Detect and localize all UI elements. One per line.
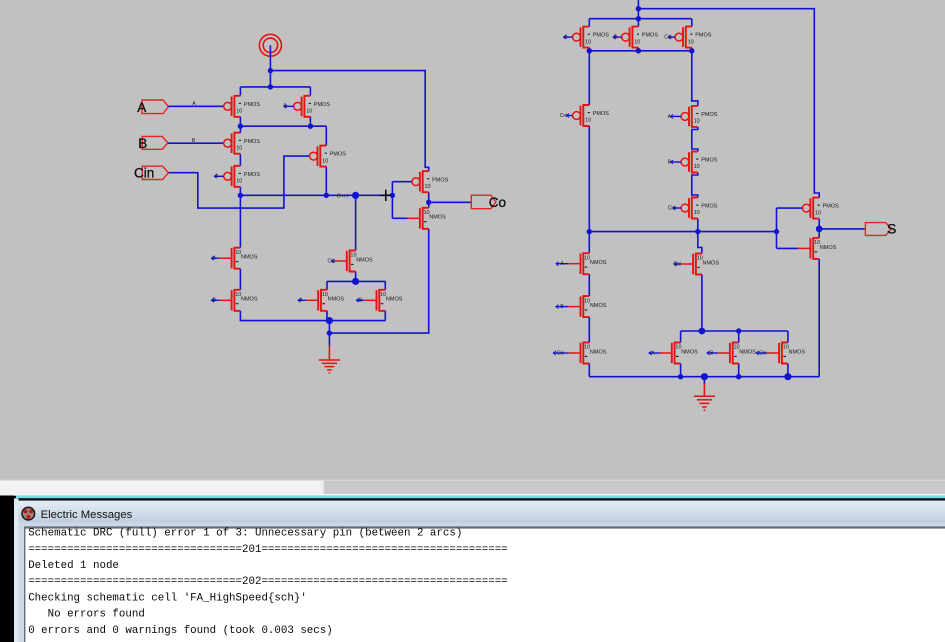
wire P4 gate stub (gate stub): [214, 174, 223, 180]
wire bottom rail right: [589, 376, 819, 378]
wire inverter NMOS gate wire: [392, 217, 407, 219]
wire vdd rail left: [240, 86, 310, 88]
wire output to Co pin: [429, 201, 472, 203]
wire inverter NMOS source down: [329, 229, 428, 333]
svg-text:Deleted 1 node: Deleted 1 node: [28, 560, 119, 572]
transistor P10 gate Cni (PMOS): [573, 105, 610, 126]
wire vdd drop to rail: [269, 71, 271, 87]
transistor P4 gate A (PMOS): [224, 166, 261, 187]
svg-text:PMOS: PMOS: [701, 112, 718, 118]
pin S: [865, 223, 891, 236]
wire node n1 horizontal: [240, 125, 326, 127]
pin B: [142, 136, 168, 149]
svg-text:PMOS: PMOS: [642, 33, 659, 39]
wire parallel trio top rail: [681, 330, 788, 332]
wire N9 gate stub (gate stub): [556, 304, 568, 310]
svg-text:Schematic DRC (full) error 1 o: Schematic DRC (full) error 1 of 3: Unnec…: [28, 528, 462, 540]
unnecessary-pin cross marker: [380, 190, 391, 201]
transistor P1 gate A (PMOS): [224, 96, 261, 117]
node Cni at stack: [238, 193, 243, 198]
wire power feed: [269, 45, 271, 70]
schematic canvas background: [0, 0, 945, 480]
node vdd entry branch: [636, 6, 641, 11]
wire rail to N6 drain: [384, 281, 386, 289]
svg-text:10: 10: [306, 109, 312, 115]
wire N14 gate stub (gate stub): [756, 350, 767, 356]
svg-text:A: A: [137, 100, 146, 115]
svg-text:Cni: Cni: [560, 113, 568, 119]
node S output: [816, 226, 823, 233]
wire rail to N12: [680, 331, 682, 343]
node gnd link node: [327, 330, 332, 335]
svg-text:PMOS: PMOS: [432, 177, 449, 183]
wire N9-N10 link: [588, 317, 590, 342]
transistor N12 gate A (NMOS): [660, 343, 698, 364]
wire P5 drain to Cni rail: [325, 167, 327, 196]
wire rail to P1 source: [239, 87, 241, 96]
svg-text:NMOS: NMOS: [241, 255, 258, 261]
wire P8 drain: [637, 48, 639, 51]
svg-text:PMOS: PMOS: [593, 111, 610, 117]
node N4-source node (big): [352, 278, 359, 285]
node trio rail mid: [636, 48, 641, 53]
transistor N4 gate Cin (NMOS): [335, 251, 373, 272]
transistor P12 gate B (PMOS): [681, 152, 718, 173]
node vdd branch junction: [268, 68, 273, 73]
transistor P14 S-inverter (PMOS): [803, 198, 840, 219]
wire Cin route: [168, 156, 309, 208]
wire pin B to P3 gate: [168, 142, 224, 144]
node Cni at inverter: [390, 193, 395, 198]
wire N4 source down: [355, 272, 357, 282]
wire S-inv input vertical: [776, 208, 778, 248]
transistor P5 gate Cin (PMOS): [310, 146, 347, 167]
wire Cni rail: [240, 194, 392, 196]
node n1 left: [238, 124, 243, 129]
transistor N11 gate Cni (NMOS): [681, 254, 719, 275]
wire right branch down: [692, 51, 698, 106]
svg-text:PMOS: PMOS: [695, 33, 712, 39]
svg-text:10: 10: [585, 118, 591, 124]
wire N3 source to gnd rail: [240, 311, 385, 321]
power symbol VDD: [259, 34, 281, 56]
wire P8 gate stub (gate stub): [613, 35, 622, 41]
window icon: [22, 507, 35, 520]
svg-text:PMOS: PMOS: [244, 139, 261, 145]
node trio top mid: [736, 328, 741, 333]
wire P3 drain to P4 source: [239, 154, 241, 166]
node N11 source node: [699, 328, 706, 335]
wire inverter output node: [428, 192, 430, 208]
wire output to S pin: [819, 228, 865, 230]
wire rail to N13: [738, 331, 740, 343]
Electric Messages window frame: [14, 494, 945, 496]
pin A: [142, 100, 169, 114]
window chrome: strip below canvas: [0, 480, 945, 481]
transistor N14 gate Cin (NMOS): [767, 343, 805, 364]
wire left branch down: [588, 51, 590, 105]
svg-text:10: 10: [815, 210, 821, 216]
svg-text:PMOS: PMOS: [701, 158, 718, 164]
svg-text:Cin: Cin: [759, 350, 767, 356]
svg-text:NMOS: NMOS: [739, 349, 756, 355]
svg-text:10: 10: [694, 164, 700, 170]
node Sni left: [587, 229, 592, 234]
wire S-inv NMOS source down: [818, 259, 820, 377]
svg-text:PMOS: PMOS: [701, 204, 718, 210]
wire N12 source: [680, 364, 682, 377]
wire P13 gate stub (gate stub): [668, 205, 681, 211]
wire N6 source down: [384, 311, 386, 321]
pin Cin: [142, 166, 168, 179]
transistor N13 gate B (NMOS): [718, 343, 756, 364]
wire N11 drain up: [698, 232, 702, 254]
node Sni at inverter: [774, 229, 779, 234]
wire vdd branch to inverter: [270, 71, 428, 172]
svg-text:NMOS: NMOS: [241, 297, 258, 303]
wire rail to P2 source: [309, 87, 311, 96]
wire P9 drain: [691, 48, 693, 51]
wire rail to P9: [691, 19, 693, 27]
node trio rail left: [587, 48, 592, 53]
wire N5 source down: [326, 311, 328, 321]
ground symbol (left circuit): [319, 345, 340, 374]
transistor N10 gate Cin (NMOS): [568, 343, 606, 364]
transistor P11 gate A (PMOS): [681, 106, 718, 127]
wire P10 drain to Sni: [588, 126, 590, 232]
transistor P2 gate B (PMOS): [294, 96, 331, 117]
node Cni mid (big): [352, 192, 359, 199]
node n1 right: [308, 124, 313, 129]
wire P13 drain to Sni: [697, 219, 699, 232]
svg-text:10: 10: [322, 158, 328, 164]
transistor N7 S-inverter (NMOS): [798, 238, 836, 259]
node gnd rail node (big): [326, 317, 333, 324]
node Cni at P5: [324, 193, 329, 198]
svg-text:10: 10: [236, 109, 242, 115]
wire N8 stack top: [588, 232, 590, 254]
wire P2 drain down: [309, 117, 311, 127]
node vdd rail junction: [268, 84, 273, 89]
svg-text:Cin: Cin: [668, 205, 676, 211]
transistor P3 gate B (PMOS): [224, 133, 261, 154]
svg-text:10: 10: [236, 179, 242, 185]
svg-text:Cin: Cin: [664, 35, 672, 41]
svg-text:B: B: [138, 136, 147, 151]
wire rail to N5 drain: [326, 281, 328, 289]
transistor N6 gate B (NMOS): [364, 290, 402, 311]
wire pin A to P1 gate: [169, 105, 224, 107]
wire gnd stem link: [328, 321, 330, 334]
wire n1 down to P5 source: [325, 126, 327, 145]
node bottom rail N13: [736, 374, 741, 379]
wire P7 gate stub (gate stub): [564, 35, 573, 41]
wire N10 source down: [588, 364, 590, 377]
wire N8-N9 link: [588, 274, 590, 296]
transistor N3 gate B (NMOS): [219, 290, 257, 311]
svg-text:NMOS: NMOS: [703, 260, 720, 266]
svg-text:Electric Messages: Electric Messages: [41, 509, 133, 521]
transistor N9 gate B (NMOS): [568, 296, 606, 317]
transistor P7 gate A (PMOS): [573, 27, 610, 48]
wire N2 gate stub (gate stub): [211, 256, 219, 262]
svg-text:Cin: Cin: [134, 166, 154, 181]
wire rail to N14: [787, 331, 789, 343]
wire N4 drain up to Cni: [355, 195, 357, 250]
svg-text:PMOS: PMOS: [823, 204, 840, 210]
wire parallel pair top rail: [327, 280, 386, 282]
svg-text:No errors found: No errors found: [28, 609, 145, 621]
content area: [19, 523, 945, 642]
wire P4 drain to Cni rail / N2 stack: [239, 187, 241, 248]
wire N4 gate stub (gate stub): [327, 258, 335, 264]
svg-text:0 errors and 0 warnings found: 0 errors and 0 warnings found (took 0.00…: [28, 625, 333, 637]
svg-text:NMOS: NMOS: [590, 260, 607, 266]
svg-text:10: 10: [694, 119, 700, 125]
wire N13 source: [738, 364, 740, 377]
svg-text:PMOS: PMOS: [593, 33, 610, 39]
svg-text:NMOS: NMOS: [386, 297, 403, 303]
wire gnd stem blue right: [703, 377, 705, 385]
pin Co: [471, 195, 496, 209]
transistor N8 gate A (NMOS): [568, 253, 606, 274]
wire vdd entry: [637, 0, 639, 19]
wire N14 source: [787, 364, 789, 377]
svg-text:10: 10: [585, 39, 591, 45]
wire N11 gate stub (gate stub): [673, 261, 681, 267]
svg-text:NMOS: NMOS: [681, 349, 698, 355]
wire N8 gate stub (gate stub): [556, 261, 568, 267]
svg-text:Cni: Cni: [337, 193, 348, 199]
node bottom rail N14 (big): [784, 373, 791, 380]
svg-text:10: 10: [425, 184, 431, 190]
wire rail to P7: [588, 19, 590, 27]
svg-text:PMOS: PMOS: [244, 102, 261, 108]
transistor N5 gate A (NMOS): [306, 290, 344, 311]
wire vdd top branch: [638, 9, 819, 198]
wire N13 gate stub (gate stub): [707, 350, 718, 356]
svg-text:10: 10: [236, 145, 242, 151]
wire P11-P12 link: [692, 127, 698, 152]
svg-text:10: 10: [634, 39, 640, 45]
svg-text:==============================: =================================201====…: [28, 544, 507, 556]
svg-text:Cni: Cni: [673, 261, 681, 267]
svg-text:NMOS: NMOS: [820, 245, 837, 251]
wire N11 source down: [701, 275, 703, 332]
transistor N1 inverter (NMOS): [408, 208, 446, 229]
wire inverter PMOS gate wire: [392, 181, 412, 183]
black backdrop below: [0, 496, 945, 642]
wire P7 drain: [588, 48, 590, 51]
svg-text:PMOS: PMOS: [314, 102, 331, 108]
wire N12 gate stub (gate stub): [649, 350, 660, 356]
wire trio bottom rail: [589, 50, 692, 52]
svg-text:S: S: [887, 221, 896, 237]
svg-text:PMOS: PMOS: [330, 152, 347, 158]
transistor N2 gate A (NMOS): [219, 248, 257, 269]
svg-text:NMOS: NMOS: [356, 257, 373, 263]
svg-text:Co: Co: [489, 195, 506, 210]
svg-text:Cin: Cin: [327, 258, 335, 264]
svg-text:PMOS: PMOS: [244, 172, 261, 178]
node inverter output: [426, 200, 431, 205]
svg-text:NMOS: NMOS: [429, 215, 446, 221]
wire P10 gate stub (gate stub): [560, 113, 573, 119]
wire N10 gate stub (gate stub): [553, 350, 568, 356]
transistor P13 gate Cin (PMOS): [681, 198, 718, 219]
wire S-inv output node: [818, 219, 820, 238]
wire P12-P13 link: [692, 173, 698, 198]
node Sni mid: [695, 229, 700, 234]
wire P2 gate stub (gate stub): [283, 104, 293, 110]
ground symbol (right circuit): [694, 384, 715, 412]
transistor P6 inverter (PMOS): [412, 171, 449, 192]
svg-text:Checking schematic cell 'FA_Hi: Checking schematic cell 'FA_HighSpeed{sc…: [28, 592, 307, 604]
wire P9 gate stub (gate stub): [664, 35, 675, 41]
wire N3 gate stub (gate stub): [211, 298, 219, 304]
svg-text:NMOS: NMOS: [590, 303, 607, 309]
node bottom rail gnd (big): [701, 373, 708, 380]
svg-text:NMOS: NMOS: [328, 297, 345, 303]
wire N6 gate stub (gate stub): [356, 298, 364, 304]
wire P12 gate stub (gate stub): [668, 159, 681, 165]
wire P11 gate stub (gate stub): [668, 114, 681, 120]
transistor P8 gate B (PMOS): [622, 27, 659, 48]
wire N5 gate stub (gate stub): [298, 298, 306, 304]
wire inverter input vertical: [391, 182, 393, 219]
svg-text:10: 10: [688, 39, 694, 45]
wire vdd rail right: [589, 18, 692, 20]
wire S-inv NMOS gate wire: [777, 247, 799, 249]
wire S-inv PMOS gate wire: [777, 207, 803, 209]
svg-text:Cin: Cin: [557, 350, 565, 356]
svg-text:==============================: =================================202====…: [28, 576, 507, 588]
wire N2 drain to N3: [239, 269, 241, 290]
wire P1 drain to P3 stack: [239, 117, 241, 133]
title bar: [16, 501, 945, 523]
wire gnd stem blue: [328, 333, 330, 346]
node bottom rail N12: [678, 374, 683, 379]
wire Sni rail: [589, 231, 776, 233]
node trio rail right: [689, 48, 694, 53]
svg-text:NMOS: NMOS: [789, 349, 806, 355]
svg-text:10: 10: [694, 210, 700, 216]
wire rail to P8: [637, 19, 639, 27]
node vdd entry rail: [636, 16, 641, 21]
transistor P9 gate Cin (PMOS): [675, 27, 712, 48]
svg-text:NMOS: NMOS: [590, 349, 607, 355]
